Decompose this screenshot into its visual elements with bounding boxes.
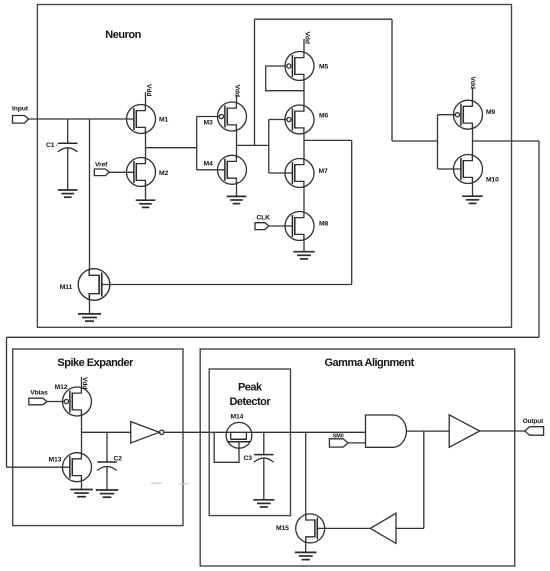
svg-text:Detector: Detector	[229, 396, 271, 408]
svg-text:M4: M4	[204, 160, 214, 167]
svg-text:M14: M14	[231, 414, 244, 421]
ground (M8)	[293, 237, 315, 259]
wire CLK to M8 gate	[269, 225, 293, 227]
capacitor C2	[97, 432, 122, 490]
block frame: Peak Detector	[209, 369, 290, 516]
svg-text:Neuron: Neuron	[105, 29, 141, 41]
svg-text:M13: M13	[49, 457, 62, 464]
ground (M11)	[78, 295, 101, 321]
svg-text:C1: C1	[46, 142, 55, 149]
svg-text:Gamma Alignment: Gamma Alignment	[325, 357, 415, 369]
wire M15 drain riser	[305, 432, 307, 515]
svg-text:Input: Input	[12, 106, 29, 113]
power Vdd (M1)	[145, 84, 152, 106]
svg-text:Vdd: Vdd	[234, 85, 241, 97]
port Input	[12, 106, 29, 124]
port Output	[523, 418, 544, 435]
wire Vbias to M12 gate	[47, 401, 64, 403]
svg-text:Vbias: Vbias	[30, 389, 48, 396]
transistor M5 (PMOS, diode connected)	[285, 52, 329, 81]
transistor M10 (NMOS)	[454, 155, 500, 184]
wire M1/M2 drain junction node	[146, 130, 197, 161]
transistor M9 (PMOS)	[454, 100, 496, 129]
op-amp U3: output buffer	[449, 415, 480, 448]
wire M7 source to M8 drain	[303, 187, 305, 212]
port Vref	[94, 162, 109, 176]
wire input net	[29, 118, 135, 120]
transistor M4 (NMOS)	[204, 155, 247, 184]
wire input to M11 drain	[89, 119, 91, 271]
wire inverter output to gamma wire	[164, 431, 366, 433]
wire neuron output: M9/M10 drains right, down and across to M13 gate	[7, 126, 540, 467]
port Vbias	[29, 389, 48, 405]
svg-text:Vdd: Vdd	[81, 377, 88, 389]
wire M5 drain to M6 source	[303, 80, 305, 106]
svg-text:M15: M15	[276, 525, 289, 532]
transistor M6 (PMOS)	[285, 105, 329, 134]
wire top route to M9/M10 gates	[255, 19, 438, 141]
svg-text:M11: M11	[60, 284, 73, 291]
svg-text:Vdd: Vdd	[469, 77, 476, 89]
block frame: Neuron	[37, 5, 511, 328]
svg-text:C2: C2	[114, 456, 123, 463]
wire M3/M4 drain junction node	[237, 128, 269, 158]
op-amp U1: spike expander inverter	[131, 422, 164, 443]
transistor M7 (NMOS)	[285, 159, 328, 188]
svg-text:Peak: Peak	[238, 381, 263, 393]
svg-text:C3: C3	[244, 455, 253, 462]
power Vdd (M9)	[469, 77, 476, 102]
wire AND output to buffer	[406, 430, 449, 432]
power Vdd (M12)	[81, 377, 88, 390]
wire M5 gate-drain loop	[266, 66, 304, 91]
ground (C3)	[253, 500, 274, 507]
svg-text:M3: M3	[204, 119, 214, 126]
transistor M3 (PMOS)	[204, 102, 247, 131]
wire node B riser to top	[254, 19, 256, 145]
transistor M15 (NMOS, gate right)	[276, 514, 325, 543]
port CLK	[255, 215, 270, 230]
block frame: Gamma Alignment	[200, 349, 515, 566]
transistor M11 (NMOS, gate right)	[60, 269, 110, 301]
svg-text:M10: M10	[486, 177, 499, 184]
transistor M14 (NMOS, gate down, diode connected)	[214, 414, 252, 463]
wire feedback: AND output down to inverter input	[396, 431, 424, 528]
wire faint artifact dashes	[151, 482, 189, 485]
svg-text:Spike Expander: Spike Expander	[57, 357, 134, 369]
ground (M4)	[227, 181, 247, 204]
svg-text:M5: M5	[319, 64, 329, 71]
wire M6/M7 drain junction node	[101, 133, 352, 285]
wire M3/M4 gate vertical	[197, 117, 225, 170]
ground (C2)	[96, 490, 119, 497]
capacitor C1	[46, 119, 78, 190]
AND gate U2	[366, 415, 407, 447]
svg-text:Vdd: Vdd	[303, 32, 310, 44]
transistor M12 (PMOS)	[55, 384, 92, 416]
capacitor C3	[244, 432, 274, 500]
transistor M2 (NMOS)	[127, 158, 169, 187]
wire M12/M13 junction node	[82, 414, 131, 454]
ground (C1)	[58, 190, 78, 197]
power Vdd (M3)	[234, 85, 241, 105]
ground (M15)	[295, 539, 317, 560]
svg-text:M7: M7	[319, 168, 329, 175]
wire M9/M10 gate vertical	[438, 115, 462, 169]
wire Vref to M2 gate	[109, 171, 134, 173]
svg-text:CLK: CLK	[256, 215, 270, 222]
ground (M13)	[70, 478, 93, 497]
svg-text:M2: M2	[159, 170, 169, 177]
svg-text:Output: Output	[523, 418, 544, 425]
ground (M2)	[136, 183, 156, 207]
transistor M1 (NMOS)	[127, 105, 169, 134]
transistor M13 (NMOS)	[49, 453, 92, 482]
op-amp U4: feedback buffer (points left)	[370, 513, 396, 543]
svg-text:M1: M1	[159, 117, 169, 124]
wire SM0 to AND gate	[348, 442, 365, 444]
block frame: Spike Expander	[13, 349, 183, 526]
wire buffer output to Output port	[480, 430, 526, 432]
wire feedback buffer to M15 gate	[317, 527, 370, 529]
svg-text:M6: M6	[319, 113, 329, 120]
svg-text:M12: M12	[55, 384, 68, 391]
svg-text:SM0: SM0	[333, 433, 344, 439]
svg-text:Vdd: Vdd	[145, 84, 152, 96]
svg-text:Vref: Vref	[95, 162, 108, 169]
transistor M8 (NMOS)	[285, 212, 329, 241]
svg-text:M9: M9	[486, 109, 496, 116]
wire M6/M7 gate vertical	[269, 120, 293, 174]
ground (M10)	[462, 180, 483, 203]
power Vdd (M5)	[303, 32, 310, 54]
svg-text:M8: M8	[319, 221, 329, 228]
port SM0	[329, 433, 348, 447]
